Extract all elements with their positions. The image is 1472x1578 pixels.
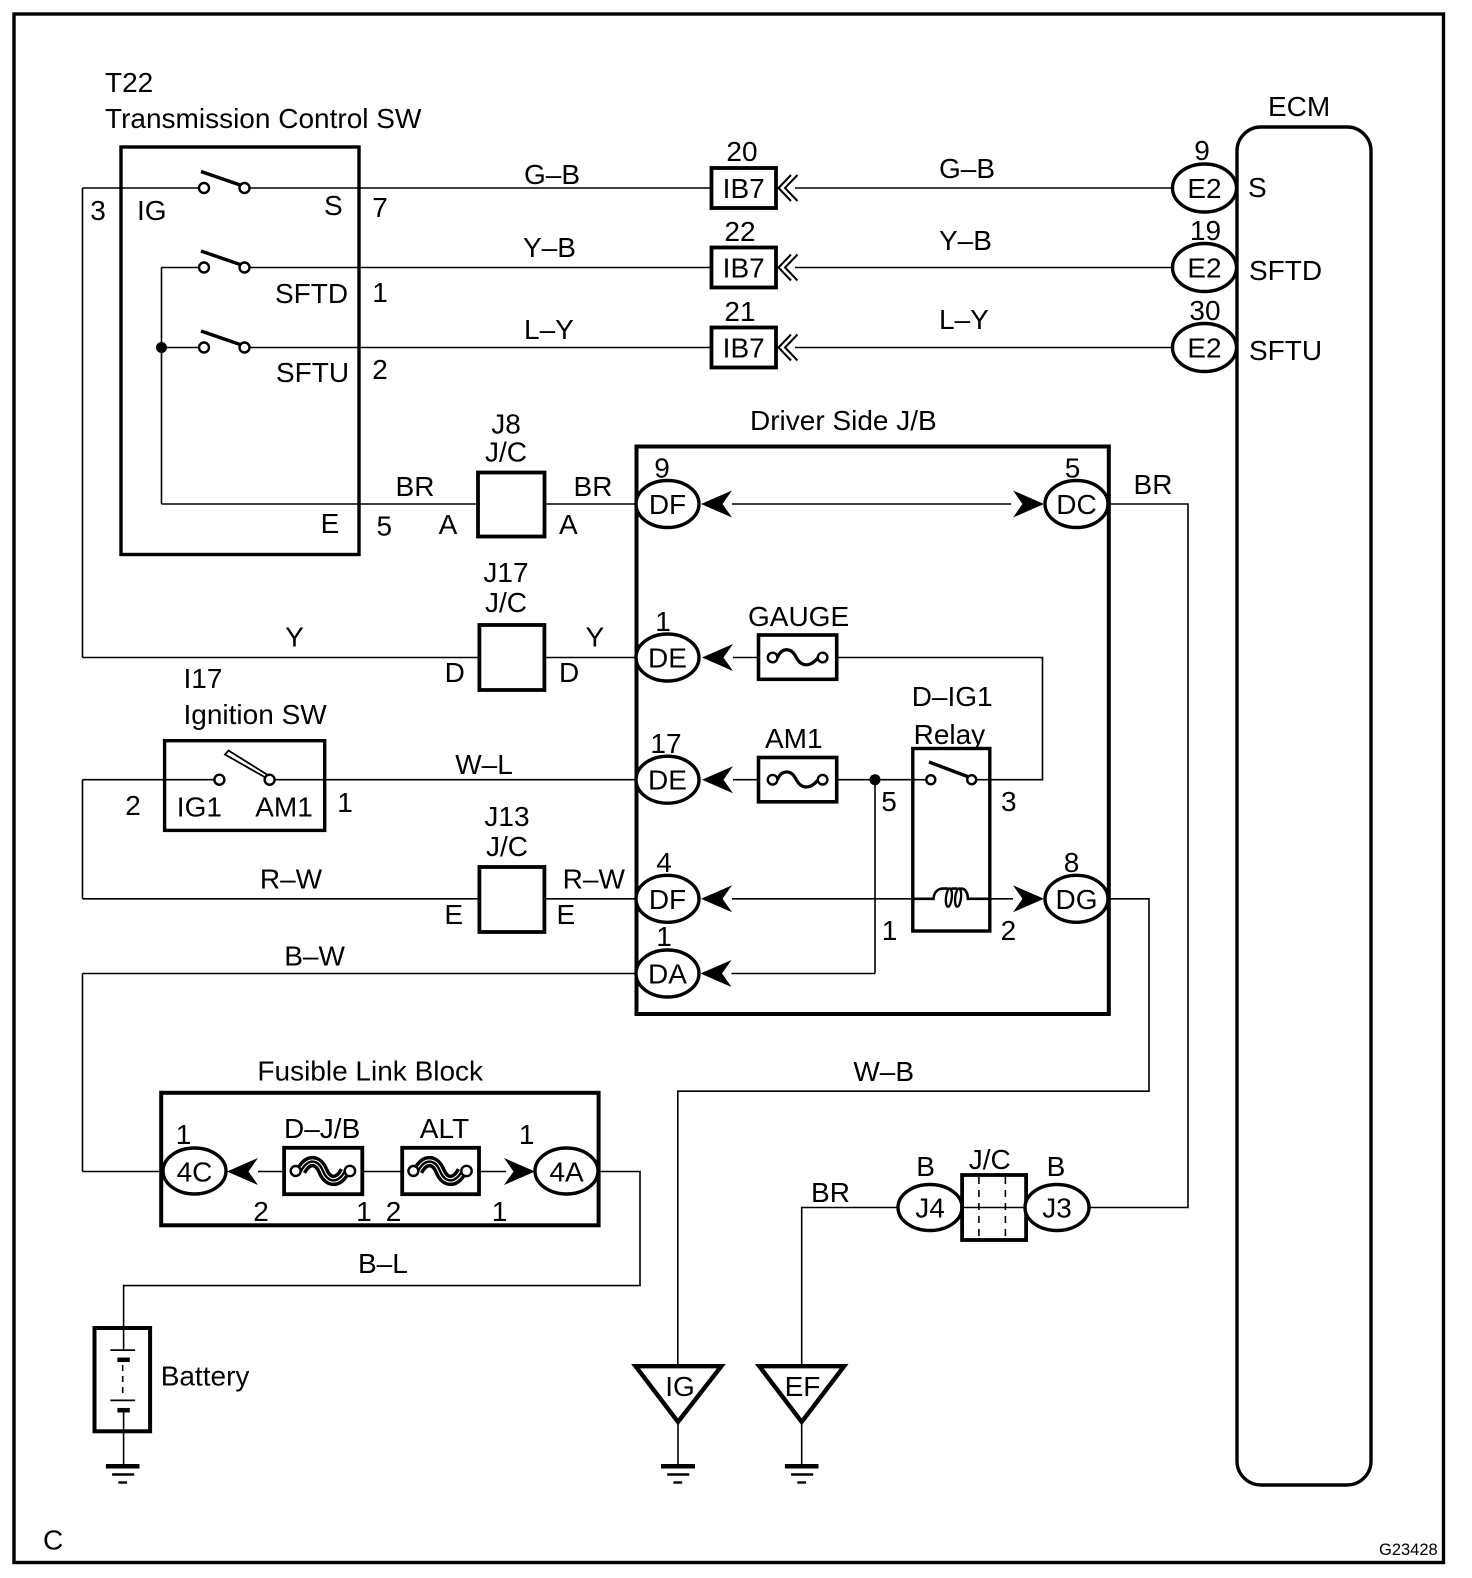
wire Y-B right: [795, 267, 1173, 269]
switch SFTU: [201, 331, 243, 346]
Ignition SW box: [165, 741, 325, 831]
wire GAUGE to relay pin3: [837, 658, 1043, 780]
svg-text:2: 2: [372, 354, 388, 385]
svg-text:22: 22: [724, 216, 755, 247]
svg-text:4: 4: [656, 847, 672, 878]
svg-text:3: 3: [1001, 786, 1017, 817]
svg-text:1: 1: [176, 1119, 192, 1150]
wire DC to BR bus: [1089, 504, 1188, 1208]
connector DF pin4: [636, 875, 699, 922]
arrow into DE17: [702, 766, 733, 793]
svg-text:1: 1: [372, 277, 388, 308]
svg-text:J13: J13: [484, 801, 529, 832]
svg-text:30: 30: [1189, 295, 1220, 326]
svg-text:IG: IG: [665, 1371, 695, 1402]
arrow into DG: [1013, 885, 1044, 912]
svg-text:D: D: [559, 657, 579, 688]
connector E2 pin9: [1173, 164, 1237, 212]
arrow into DF9: [701, 491, 732, 518]
svg-text:J3: J3: [1042, 1193, 1072, 1224]
ground triangle EF: [759, 1366, 844, 1422]
wire DF4 to relay coil: [732, 898, 913, 900]
junction node 5: [870, 774, 881, 785]
svg-text:8: 8: [1064, 847, 1080, 878]
svg-text:1: 1: [492, 1196, 508, 1227]
svg-text:DE: DE: [648, 765, 687, 796]
svg-text:Y: Y: [285, 622, 304, 653]
svg-text:IB7: IB7: [723, 173, 765, 204]
svg-text:G–B: G–B: [939, 153, 995, 184]
svg-text:BR: BR: [1134, 469, 1173, 500]
svg-text:J4: J4: [915, 1193, 945, 1224]
wire D-J/B to ALT: [362, 1171, 402, 1173]
svg-text:4C: 4C: [177, 1157, 213, 1188]
svg-text:Battery: Battery: [161, 1361, 250, 1392]
wire Y left: [83, 657, 480, 659]
connector J4: [898, 1185, 962, 1231]
switch SFTD: [201, 251, 243, 266]
wire AM1 to relay: [837, 779, 913, 781]
arrow into 4A: [504, 1158, 535, 1185]
wire L-Y right: [795, 347, 1173, 349]
svg-text:I17: I17: [184, 663, 223, 694]
wire B-W row to fusible 4C: [82, 974, 84, 1172]
battery box: [95, 1328, 151, 1431]
wire ALT to arrow: [479, 1171, 506, 1173]
svg-text:E: E: [321, 508, 340, 539]
svg-text:W–B: W–B: [853, 1056, 914, 1087]
svg-text:J17: J17: [483, 557, 528, 588]
connector DF pin9: [636, 481, 699, 528]
svg-text:IB7: IB7: [723, 333, 765, 364]
svg-text:ALT: ALT: [420, 1113, 469, 1144]
svg-text:J/C: J/C: [969, 1144, 1011, 1175]
svg-text:Relay: Relay: [914, 719, 986, 750]
svg-text:Y: Y: [586, 622, 605, 653]
svg-text:GAUGE: GAUGE: [748, 601, 849, 632]
J/C box: [962, 1175, 1026, 1240]
internal vertical wire: [161, 268, 163, 505]
wire DG to W-B bus: [678, 899, 1149, 1366]
svg-text:W–L: W–L: [455, 749, 513, 780]
svg-text:D: D: [445, 657, 465, 688]
svg-text:7: 7: [372, 192, 388, 223]
svg-text:R–W: R–W: [260, 864, 323, 895]
svg-text:Y–B: Y–B: [939, 225, 992, 256]
connector E2 pin30: [1173, 324, 1237, 372]
svg-text:5: 5: [377, 511, 393, 542]
wire inside to AM1: [165, 779, 215, 781]
svg-text:E: E: [444, 899, 463, 930]
wire row2 SFTD: [162, 267, 200, 269]
wire to AM1 fuse: [733, 779, 759, 781]
svg-text:1: 1: [519, 1119, 535, 1150]
svg-text:AM1: AM1: [255, 792, 313, 823]
wire DF9 to DC: [732, 503, 1011, 505]
svg-text:5: 5: [1065, 453, 1081, 484]
svg-text:J/C: J/C: [485, 587, 527, 618]
svg-text:Ignition SW: Ignition SW: [184, 699, 328, 730]
svg-text:B: B: [1047, 1151, 1066, 1182]
wire G-B right: [795, 187, 1173, 189]
svg-text:1: 1: [656, 921, 672, 952]
wire BR to DF: [545, 503, 637, 505]
fusible link D-J/B: [284, 1148, 362, 1194]
connector DE pin1: [636, 634, 699, 681]
wire pin3 T22 to Y row: [82, 188, 84, 658]
battery cells: [123, 1328, 125, 1350]
svg-text:J/C: J/C: [485, 437, 527, 468]
svg-text:2: 2: [1001, 915, 1017, 946]
svg-text:E2: E2: [1187, 173, 1221, 204]
wire R-W left: [83, 898, 480, 900]
svg-text:20: 20: [726, 136, 757, 167]
ground symbol EF: [785, 1464, 819, 1469]
J/B box: [637, 447, 1109, 1015]
J17 box: [479, 625, 544, 690]
svg-text:S: S: [1248, 172, 1267, 203]
arrow into DE1: [702, 644, 733, 671]
junction node: [156, 342, 167, 353]
svg-text:DF: DF: [649, 489, 686, 520]
fusible link ALT: [402, 1148, 479, 1194]
svg-text:SFTD: SFTD: [1249, 255, 1322, 286]
connector J3: [1025, 1185, 1089, 1231]
svg-text:R–W: R–W: [563, 864, 626, 895]
connector IB7 pin22: [712, 248, 777, 288]
svg-text:IB7: IB7: [723, 253, 765, 284]
svg-text:E2: E2: [1187, 253, 1221, 284]
svg-text:5: 5: [881, 786, 897, 817]
wire Y right: [544, 657, 636, 659]
wire arrow to D-J/B: [258, 1171, 284, 1173]
wire DA to node vertical: [732, 973, 876, 975]
svg-text:BR: BR: [811, 1177, 850, 1208]
relay switch: [913, 779, 927, 781]
svg-text:BR: BR: [396, 471, 435, 502]
svg-text:SFTD: SFTD: [275, 278, 348, 309]
wire B-L 4A to battery: [124, 1172, 640, 1329]
svg-text:J/C: J/C: [486, 831, 528, 862]
svg-text:S: S: [324, 190, 343, 221]
wire row1 S: [83, 187, 200, 189]
svg-text:BR: BR: [574, 471, 613, 502]
svg-text:ECM: ECM: [1268, 91, 1330, 122]
connector IB7 pin20: [712, 168, 777, 208]
connector DE pin17: [636, 756, 699, 803]
svg-text:3: 3: [90, 195, 106, 226]
svg-text:G23428: G23428: [1379, 1541, 1438, 1559]
connector DC pin5: [1045, 481, 1108, 528]
svg-text:4A: 4A: [549, 1157, 584, 1188]
svg-text:SFTU: SFTU: [1249, 335, 1322, 366]
svg-text:D–J/B: D–J/B: [284, 1113, 360, 1144]
svg-text:DF: DF: [649, 884, 686, 915]
svg-text:AM1: AM1: [765, 723, 823, 754]
svg-text:9: 9: [1194, 135, 1210, 166]
svg-text:SFTU: SFTU: [276, 357, 349, 388]
svg-text:Fusible Link Block: Fusible Link Block: [257, 1056, 484, 1087]
svg-text:Driver Side J/B: Driver Side J/B: [750, 405, 937, 436]
svg-text:DG: DG: [1056, 884, 1098, 915]
svg-text:C: C: [43, 1525, 63, 1556]
svg-text:L–Y: L–Y: [939, 304, 989, 335]
svg-text:DA: DA: [648, 959, 687, 990]
ground triangle IG: [636, 1366, 722, 1422]
svg-text:J8: J8: [491, 409, 521, 440]
connector DG pin8: [1045, 875, 1108, 922]
wire into 4C: [83, 1171, 165, 1173]
ground symbol IG: [661, 1464, 695, 1469]
wire W-L: [325, 779, 636, 781]
arrow into DF4: [701, 885, 732, 912]
svg-text:T22: T22: [105, 67, 153, 98]
svg-text:2: 2: [125, 790, 141, 821]
svg-text:1: 1: [882, 915, 898, 946]
J13 box: [479, 867, 544, 932]
wire to GAUGE: [733, 657, 759, 659]
svg-text:L–Y: L–Y: [524, 314, 574, 345]
arrow into DC: [1013, 491, 1044, 518]
wire node to DA row: [874, 780, 876, 974]
svg-text:D–IG1: D–IG1: [912, 681, 993, 712]
wire IG1 left: [83, 779, 165, 781]
wire R-W right: [544, 898, 636, 900]
ignition switch lever: [225, 751, 269, 778]
svg-text:1: 1: [356, 1196, 372, 1227]
svg-text:A: A: [439, 509, 458, 540]
svg-text:A: A: [559, 509, 578, 540]
svg-text:E2: E2: [1187, 333, 1221, 364]
connector DA pin1: [636, 950, 699, 997]
svg-text:Y–B: Y–B: [523, 232, 576, 263]
wire row3 SFTU: [162, 347, 200, 349]
switch S: [201, 172, 243, 187]
wire relay coil to DG arrow: [990, 898, 1013, 900]
wire B-W: [83, 973, 637, 975]
connector 4A pin1: [535, 1148, 598, 1194]
T22 box: [121, 147, 359, 555]
svg-text:EF: EF: [785, 1371, 821, 1402]
svg-text:19: 19: [1190, 215, 1221, 246]
ECM box: [1237, 127, 1371, 1485]
svg-text:B–L: B–L: [358, 1248, 408, 1279]
relay D-IG1 box: [913, 749, 990, 932]
svg-text:9: 9: [654, 453, 670, 484]
connector IB7 pin21: [712, 328, 777, 368]
fuse GAUGE: [759, 635, 837, 679]
ground battery: [106, 1464, 140, 1469]
svg-text:DC: DC: [1056, 489, 1096, 520]
wire EF up to BR row: [802, 1208, 898, 1367]
fuse AM1: [759, 758, 837, 802]
connector E2 pin19: [1173, 244, 1237, 292]
J8 box: [478, 473, 545, 537]
wire IG1 to R-W row: [82, 780, 84, 899]
svg-text:IG1: IG1: [177, 792, 222, 823]
arrow into DA: [701, 960, 732, 987]
svg-text:G–B: G–B: [524, 159, 580, 190]
svg-text:2: 2: [386, 1196, 402, 1227]
svg-text:1: 1: [337, 787, 353, 818]
connector 4C pin1: [163, 1148, 226, 1194]
wire E row: [162, 503, 479, 505]
relay coil: [913, 889, 990, 899]
svg-text:17: 17: [650, 728, 681, 759]
svg-text:DE: DE: [648, 643, 687, 674]
svg-text:Transmission Control SW: Transmission Control SW: [105, 103, 422, 134]
svg-text:IG: IG: [137, 195, 167, 226]
svg-text:2: 2: [253, 1196, 269, 1227]
svg-text:21: 21: [724, 296, 755, 327]
svg-text:B: B: [916, 1151, 935, 1182]
svg-text:E: E: [556, 899, 575, 930]
svg-text:B–W: B–W: [284, 941, 345, 972]
fusible link block box: [161, 1093, 598, 1226]
svg-text:1: 1: [655, 606, 671, 637]
arrow into 4C: [227, 1158, 258, 1185]
